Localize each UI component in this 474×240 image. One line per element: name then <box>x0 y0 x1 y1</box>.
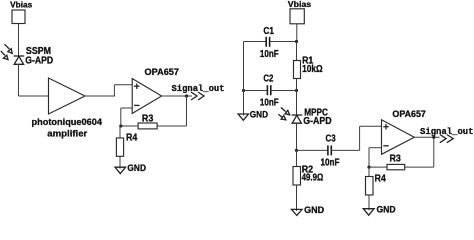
svg-text:R3: R3 <box>142 114 154 125</box>
svg-text:OPA657: OPA657 <box>392 109 426 120</box>
svg-text:R4: R4 <box>126 132 138 143</box>
svg-text:10kΩ: 10kΩ <box>302 64 323 75</box>
svg-text:GND: GND <box>250 109 269 119</box>
svg-text:G-APD: G-APD <box>303 116 331 127</box>
svg-text:10nF: 10nF <box>321 157 340 168</box>
svg-text:Vbias: Vbias <box>10 1 33 10</box>
svg-text:amplifier: amplifier <box>47 127 87 138</box>
svg-text:10nF: 10nF <box>260 49 279 60</box>
svg-text:Vbias: Vbias <box>288 0 312 9</box>
svg-text:C2: C2 <box>263 74 273 85</box>
svg-text:GND: GND <box>377 205 396 215</box>
svg-text:49.9Ω: 49.9Ω <box>302 173 324 184</box>
svg-text:GND: GND <box>127 163 146 173</box>
svg-text:10nF: 10nF <box>260 98 279 109</box>
svg-text:R4: R4 <box>375 174 387 185</box>
svg-text:GND: GND <box>304 205 325 215</box>
svg-text:photonique0604: photonique0604 <box>32 117 103 127</box>
svg-text:C3: C3 <box>326 133 336 144</box>
svg-text:R3: R3 <box>390 153 402 164</box>
svg-text:G-APD: G-APD <box>25 56 53 67</box>
svg-text:C1: C1 <box>263 26 274 37</box>
svg-text:OPA657: OPA657 <box>145 67 180 78</box>
svg-text:Signal_out: Signal_out <box>420 126 474 137</box>
